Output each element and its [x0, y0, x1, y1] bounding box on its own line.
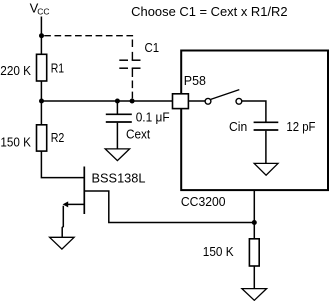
wire main horizontal to P58	[41, 100, 172, 102]
wire CC3200 bottom lead	[253, 191, 255, 239]
wire switch to Cin	[242, 101, 266, 122]
wire dashed C1 top horizontal	[44, 35, 133, 37]
svg-text:0.1 μF: 0.1 μF	[136, 110, 170, 124]
node drain junction	[252, 220, 257, 225]
net VCC label	[30, 0, 50, 16]
transistor Q1 BSS138L bar	[83, 167, 85, 215]
svg-text:BSS138L: BSS138L	[92, 172, 146, 186]
svg-text:220 K: 220 K	[0, 64, 31, 78]
wire R3 to ground	[253, 266, 255, 289]
svg-text:Choose C1 = Cext x R1/R2: Choose C1 = Cext x R1/R2	[131, 5, 287, 19]
wire VCC lead	[40, 17, 42, 55]
capacitor Cext top lead	[116, 101, 118, 114]
wire dashed C1 vertical lower	[131, 68, 133, 98]
capacitor C1 (dashed plates)	[119, 60, 140, 68]
svg-text:CC3200: CC3200	[181, 195, 226, 209]
svg-text:C1: C1	[145, 41, 160, 55]
svg-text:R1: R1	[51, 61, 64, 75]
pin P58 pad	[173, 94, 189, 109]
svg-text:R2: R2	[51, 131, 65, 145]
svg-text:P58: P58	[184, 74, 206, 88]
resistor R3 150K	[249, 239, 259, 266]
capacitor Cin plates	[254, 121, 279, 123]
wire Cin to ground	[265, 131, 267, 164]
resistor R1	[37, 54, 47, 81]
wire R2 to transistor gate	[41, 151, 84, 178]
capacitor Cext plates	[106, 113, 132, 115]
svg-text:150 K: 150 K	[0, 135, 31, 149]
svg-text:12 pF: 12 pF	[286, 120, 315, 134]
wire R1 to R2	[40, 81, 42, 125]
svg-text:CC: CC	[37, 6, 49, 16]
ground Cext	[105, 149, 129, 161]
node divider junction	[39, 99, 44, 104]
svg-text:Cext: Cext	[126, 127, 151, 141]
ground R3	[242, 289, 267, 301]
wire dashed C1 vertical upper	[131, 40, 133, 61]
wire source	[68, 203, 85, 205]
ground transistor	[50, 237, 75, 249]
wire Cext to ground	[116, 123, 118, 149]
switch SW1 pole	[205, 98, 211, 104]
svg-text:150 K: 150 K	[203, 245, 234, 259]
wire drain to junction	[84, 191, 254, 223]
switch SW1 throw	[236, 98, 242, 104]
IC U1 CC3200 box	[181, 51, 328, 191]
svg-text:Cin: Cin	[229, 120, 247, 134]
node junction VCC/C1	[39, 33, 44, 38]
wire pad to switch	[189, 100, 206, 102]
ground Cin	[254, 163, 278, 175]
switch lever	[211, 90, 240, 100]
wire source to ground	[62, 206, 63, 238]
resistor R2	[37, 125, 47, 151]
arrow source	[63, 201, 69, 207]
node C1 junction	[130, 99, 135, 104]
node Cext junction	[115, 99, 120, 104]
